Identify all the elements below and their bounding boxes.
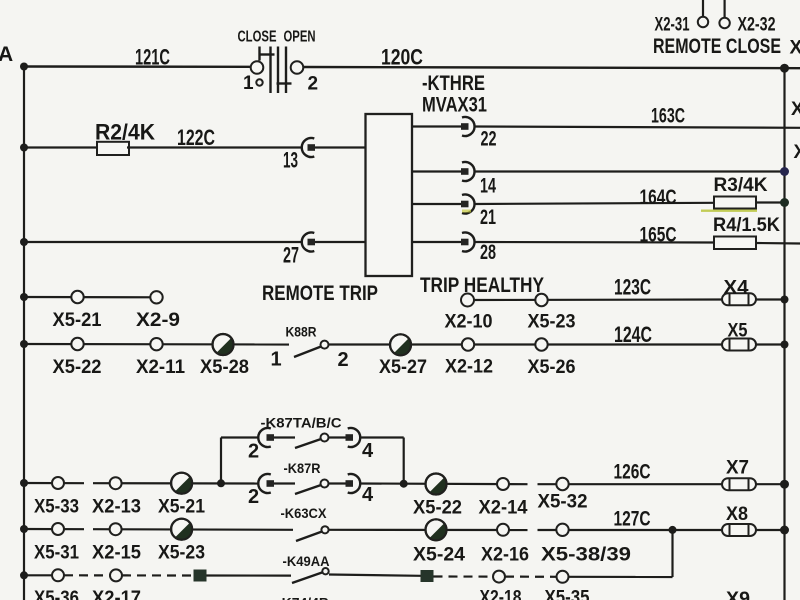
svg-text:X2-13: X2-13 [92,497,141,518]
svg-text:X5: X5 [728,321,748,342]
svg-text:22: 22 [481,127,497,151]
svg-text:127C: 127C [614,507,651,531]
svg-text:-K49AA: -K49AA [283,553,330,569]
svg-text:X5-35: X5-35 [545,588,590,600]
svg-text:X5-31: X5-31 [34,543,79,564]
svg-text:X5-26: X5-26 [528,357,576,378]
svg-text:-K87R: -K87R [284,460,321,476]
svg-text:X2-10: X2-10 [445,312,493,333]
svg-text:-K63CX: -K63CX [281,505,328,521]
svg-text:X5-22: X5-22 [53,357,102,378]
svg-text:2: 2 [248,486,259,508]
svg-text:X5-23: X5-23 [158,543,205,564]
svg-text:R4/1.5K: R4/1.5K [713,215,780,236]
svg-text:X2-9: X2-9 [136,310,180,331]
svg-text:-K74/4B: -K74/4B [277,595,329,600]
svg-text:-KTHRE: -KTHRE [422,72,485,95]
svg-text:2: 2 [308,74,319,95]
svg-text:X5-38/39: X5-38/39 [541,545,631,566]
svg-text:X2-12: X2-12 [445,357,493,378]
svg-text:R2/4K: R2/4K [95,120,156,145]
svg-text:X2-17: X2-17 [92,588,141,600]
svg-text:X4: X4 [724,278,749,299]
svg-text:OPEN: OPEN [284,29,316,46]
svg-text:13: 13 [283,148,298,173]
svg-text:CLOSE: CLOSE [238,29,277,46]
svg-text:X5-33: X5-33 [34,497,79,518]
svg-text:X5-32: X5-32 [538,492,588,513]
svg-text:X5-28: X5-28 [200,357,249,378]
svg-text:165C: 165C [640,223,677,247]
svg-text:164C: 164C [640,185,677,209]
svg-text:X2-16: X2-16 [481,545,529,566]
svg-text:2: 2 [248,441,259,463]
svg-text:28: 28 [480,240,496,264]
svg-text:X5-21: X5-21 [158,497,205,518]
svg-text:121C: 121C [135,45,170,70]
svg-text:X2-15: X2-15 [92,543,141,564]
svg-text:X2-18: X2-18 [480,588,522,600]
svg-text:X5-27: X5-27 [379,357,427,378]
svg-text:R3/4K: R3/4K [714,175,768,196]
svg-text:1: 1 [243,73,254,94]
svg-text:21: 21 [480,205,496,229]
svg-text:120C: 120C [381,45,423,70]
svg-text:1: 1 [271,349,282,371]
svg-text:X9: X9 [726,589,750,600]
svg-text:X5-22: X5-22 [413,498,462,519]
svg-text:X2-14: X2-14 [479,498,528,519]
svg-text:X: X [794,142,800,163]
svg-text:163C: 163C [651,104,685,128]
svg-text:X5-36: X5-36 [34,588,79,600]
svg-text:X2-32: X2-32 [738,15,776,36]
svg-text:X8: X8 [726,504,748,525]
svg-text:X: X [790,38,800,59]
svg-text:MVAX31: MVAX31 [422,94,487,117]
svg-text:X: X [791,99,800,120]
svg-text:124C: 124C [614,322,652,347]
svg-text:123C: 123C [614,275,651,300]
svg-text:122C: 122C [177,125,215,150]
svg-text:4: 4 [362,440,374,462]
svg-text:2: 2 [338,349,349,371]
svg-text:X7: X7 [726,458,749,479]
svg-text:X2-11: X2-11 [136,357,185,378]
svg-text:X5-23: X5-23 [528,312,576,333]
svg-text:REMOTE CLOSE: REMOTE CLOSE [653,34,781,58]
svg-text:-K87TA/B/C: -K87TA/B/C [261,415,342,431]
svg-text:X5-21: X5-21 [53,310,102,331]
svg-text:TRIP HEALTHY: TRIP HEALTHY [420,274,544,297]
svg-text:14: 14 [480,174,496,198]
svg-text:126C: 126C [614,460,651,484]
svg-text:X2-31: X2-31 [655,15,690,36]
svg-text:4: 4 [362,484,374,506]
svg-text:K88R: K88R [286,324,317,340]
svg-text:X5-24: X5-24 [413,545,465,566]
svg-text:A: A [0,43,13,66]
svg-text:27: 27 [283,243,299,268]
svg-text:REMOTE TRIP: REMOTE TRIP [262,281,378,305]
